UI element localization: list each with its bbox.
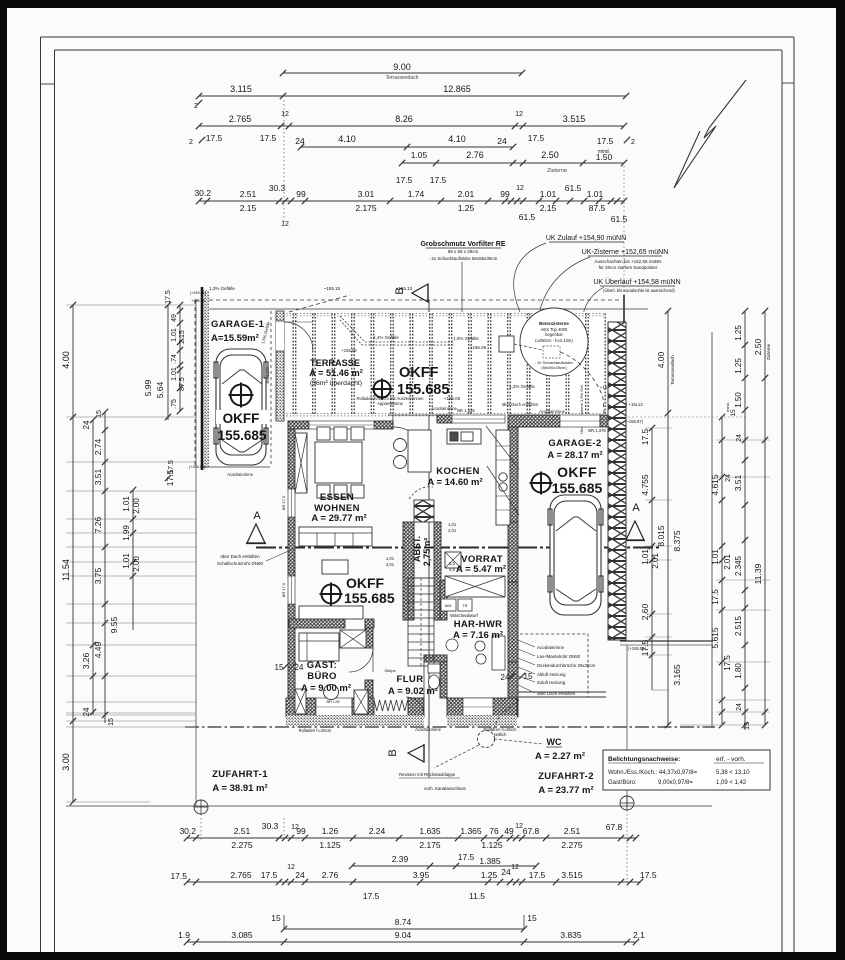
svg-text:1.01: 1.01 <box>587 189 604 199</box>
svg-text:Apparelenime: Apparelenime <box>377 401 404 406</box>
svg-text:17.5: 17.5 <box>260 133 277 143</box>
svg-text:begehbar: begehbar <box>545 332 563 337</box>
svg-text:1.74: 1.74 <box>408 189 425 199</box>
svg-text:1.125: 1.125 <box>481 840 503 850</box>
svg-text:A = 51.46 m²: A = 51.46 m² <box>309 368 363 378</box>
svg-text:2.51: 2.51 <box>240 189 257 199</box>
svg-text:15: 15 <box>730 409 737 417</box>
svg-text:A: A <box>253 510 261 522</box>
svg-text:BR.l.25: BR.l.25 <box>326 699 340 704</box>
svg-text:24: 24 <box>497 136 507 146</box>
svg-text:1.635: 1.635 <box>419 826 441 836</box>
svg-text:2.74: 2.74 <box>93 438 103 455</box>
svg-text:8.015: 8.015 <box>656 525 666 547</box>
svg-text:Deckendurchbrüche 25x25cm: Deckendurchbrüche 25x25cm <box>537 663 596 668</box>
svg-text:155.685: 155.685 <box>552 480 603 496</box>
svg-text:+155.09: +155.09 <box>341 348 357 353</box>
svg-text:24: 24 <box>295 663 304 672</box>
svg-text:12: 12 <box>287 864 295 871</box>
svg-text:Abluft Heizung: Abluft Heizung <box>537 672 566 677</box>
svg-text:B: B <box>387 749 399 756</box>
svg-text:Terrassendach: Terrassendach <box>386 75 419 81</box>
svg-text:seitlich: seitlich <box>494 732 507 737</box>
svg-text:99: 99 <box>296 189 306 199</box>
svg-text:1.01: 1.01 <box>122 496 131 512</box>
svg-text:2.24: 2.24 <box>369 826 386 836</box>
svg-text:1.80: 1.80 <box>734 663 743 679</box>
svg-text:7.26: 7.26 <box>93 516 103 533</box>
svg-text:17.5: 17.5 <box>165 290 172 304</box>
svg-text:3.51: 3.51 <box>93 468 103 485</box>
svg-text:12.865: 12.865 <box>443 84 471 94</box>
svg-text:17.5: 17.5 <box>430 175 447 185</box>
svg-text:1.25: 1.25 <box>458 203 475 213</box>
svg-text:24: 24 <box>501 867 511 877</box>
svg-text:5.99: 5.99 <box>143 379 153 396</box>
svg-text:11.54: 11.54 <box>61 559 71 581</box>
svg-text:2.50: 2.50 <box>541 150 559 160</box>
svg-text:B: B <box>394 287 406 294</box>
svg-text:76: 76 <box>489 826 499 836</box>
svg-text:8.74: 8.74 <box>395 917 412 927</box>
svg-text:1.01: 1.01 <box>171 367 178 381</box>
svg-text:87.5: 87.5 <box>589 203 606 213</box>
svg-text:1.05: 1.05 <box>411 150 428 160</box>
svg-text:TR: TR <box>462 604 467 608</box>
svg-text:+155.05: +155.05 <box>444 396 461 401</box>
svg-text:2.275: 2.275 <box>231 840 253 850</box>
svg-text:30.2: 30.2 <box>179 826 196 836</box>
svg-text:2.765: 2.765 <box>230 870 252 880</box>
svg-text:15: 15 <box>96 410 103 418</box>
svg-text:2.01: 2.01 <box>651 553 660 569</box>
svg-text:2.50: 2.50 <box>753 338 763 355</box>
svg-text:A = 7.16 m²: A = 7.16 m² <box>453 630 503 641</box>
svg-text:OKFF: OKFF <box>223 411 260 426</box>
svg-text:3.085: 3.085 <box>231 930 253 940</box>
svg-text:(Überl. bis Kanalsohle ist aus: (Überl. bis Kanalsohle ist ausreichend) <box>603 288 675 293</box>
svg-text:30.3: 30.3 <box>262 821 279 831</box>
svg-text:24: 24 <box>725 474 732 482</box>
svg-text:UK-Zisterne +152,65 müNN: UK-Zisterne +152,65 müNN <box>582 249 669 256</box>
svg-text:67.8: 67.8 <box>523 826 540 836</box>
svg-text:15: 15 <box>275 663 284 672</box>
svg-text:Stülpe: Stülpe <box>384 668 396 673</box>
svg-text:Gast/Büro:: Gast/Büro: <box>608 780 637 786</box>
svg-text:17.5: 17.5 <box>640 428 650 445</box>
svg-text:Wohn./Ess./Koch.: 44,37x0,97/8: Wohn./Ess./Koch.: 44,37x0,97/8= <box>608 770 698 776</box>
svg-text:2,01: 2,01 <box>448 528 457 533</box>
svg-text:15: 15 <box>744 722 751 730</box>
svg-text:1.365: 1.365 <box>460 826 482 836</box>
svg-text:1,09 < 1,42: 1,09 < 1,42 <box>716 780 747 786</box>
svg-text:über Dach entlüften: über Dach entlüften <box>537 691 576 696</box>
svg-text:GARAGE-1: GARAGE-1 <box>211 319 265 330</box>
svg-text:.74: .74 <box>171 354 178 364</box>
svg-text:für 20cm starken Sandpolster: für 20cm starken Sandpolster <box>599 265 658 270</box>
svg-text:Zuluft Heizung: Zuluft Heizung <box>537 680 566 685</box>
svg-text:2,01: 2,01 <box>386 562 395 567</box>
svg-text:OKFF: OKFF <box>399 365 439 381</box>
svg-text:Ausschachten bis +152,65 müNN: Ausschachten bis +152,65 müNN <box>595 259 662 264</box>
svg-text:4.10: 4.10 <box>338 134 356 144</box>
svg-text:8.375: 8.375 <box>672 530 682 552</box>
svg-text:ESSEN: ESSEN <box>320 492 354 503</box>
svg-text:HAR-HWR: HAR-HWR <box>454 619 503 630</box>
svg-text:1,01: 1,01 <box>448 522 457 527</box>
svg-text:49: 49 <box>504 826 514 836</box>
svg-text:155.685: 155.685 <box>344 590 395 606</box>
svg-text:Grobschmutz Vorfilter RE: Grobschmutz Vorfilter RE <box>420 241 505 248</box>
svg-text:A = 29.77 m²: A = 29.77 m² <box>311 513 366 524</box>
svg-text:A = 23.77 m²: A = 23.77 m² <box>538 785 593 796</box>
svg-text:3.51: 3.51 <box>733 474 743 491</box>
svg-text:BR 17,5: BR 17,5 <box>281 582 286 597</box>
svg-text:Rolladen h=25cm: Rolladen h=25cm <box>299 728 332 733</box>
svg-text:2.60: 2.60 <box>640 603 650 620</box>
svg-text:1,0% Gefälle: 1,0% Gefälle <box>453 336 479 341</box>
svg-text:2.51: 2.51 <box>564 826 581 836</box>
svg-text:2.765: 2.765 <box>229 114 252 124</box>
svg-text:OKFF: OKFF <box>346 575 385 591</box>
svg-text:12: 12 <box>281 221 289 228</box>
svg-text:ZUFAHRT-2: ZUFAHRT-2 <box>538 771 594 782</box>
svg-text:(+155.31): (+155.31) <box>190 291 207 295</box>
svg-text:15: 15 <box>271 913 281 923</box>
svg-text:WC: WC <box>547 737 562 747</box>
svg-text:A = 2.27 m²: A = 2.27 m² <box>535 751 585 762</box>
svg-text:1.25: 1.25 <box>734 358 743 374</box>
svg-text:~155.15: ~155.15 <box>324 286 341 291</box>
svg-text:1.01: 1.01 <box>540 189 557 199</box>
svg-text:OKFF: OKFF <box>557 464 597 480</box>
svg-text:A=15.59m²: A=15.59m² <box>211 333 259 344</box>
svg-text:8.26: 8.26 <box>395 114 413 124</box>
svg-text:erf. - vorh.: erf. - vorh. <box>716 756 746 763</box>
svg-text:24: 24 <box>82 707 91 716</box>
svg-text:Lav-/Mantelrohr DN50: Lav-/Mantelrohr DN50 <box>537 654 581 659</box>
svg-text:A = 5.47 m²: A = 5.47 m² <box>456 564 506 575</box>
svg-text:15: 15 <box>108 718 115 726</box>
svg-text:Acodrainrinne: Acodrainrinne <box>537 645 565 650</box>
svg-text:BR 1,125: BR 1,125 <box>457 408 475 413</box>
svg-text:3.75: 3.75 <box>93 567 103 584</box>
svg-text:1,4% Gefälle: 1,4% Gefälle <box>373 335 399 340</box>
svg-text:12: 12 <box>511 864 519 871</box>
svg-text:2.15: 2.15 <box>240 203 257 213</box>
svg-text:11.39: 11.39 <box>753 563 763 584</box>
svg-text:17.5: 17.5 <box>396 175 413 185</box>
svg-text:61.5: 61.5 <box>611 214 628 224</box>
svg-text:2.1: 2.1 <box>633 930 645 940</box>
svg-text:24: 24 <box>501 673 510 682</box>
svg-text:4.49: 4.49 <box>93 641 103 658</box>
svg-text:1.01: 1.01 <box>641 549 650 565</box>
svg-text:24: 24 <box>736 434 743 442</box>
svg-text:24: 24 <box>736 703 743 711</box>
svg-text:2.515: 2.515 <box>734 615 743 636</box>
svg-text:17.5: 17.5 <box>528 133 545 143</box>
svg-text:mind.: mind. <box>725 402 730 412</box>
svg-text:4.00: 4.00 <box>656 351 666 368</box>
svg-text:2.175: 2.175 <box>355 203 377 213</box>
svg-text:17.5: 17.5 <box>261 870 278 880</box>
svg-text:(+155.53): (+155.53) <box>189 465 206 469</box>
svg-text:2.00: 2.00 <box>132 556 141 572</box>
svg-text:4.615: 4.615 <box>710 474 720 496</box>
svg-text:30.3: 30.3 <box>269 183 286 193</box>
svg-text:17.5: 17.5 <box>640 870 657 880</box>
svg-text:2.01: 2.01 <box>723 554 732 570</box>
svg-text:1.01: 1.01 <box>711 549 720 565</box>
svg-text:ZUFAHRT-1: ZUFAHRT-1 <box>212 769 268 780</box>
svg-text:24: 24 <box>82 420 91 429</box>
svg-text:BR.1,375: BR.1,375 <box>588 428 606 433</box>
svg-text:A = 28.17 m²: A = 28.17 m² <box>547 450 602 461</box>
svg-text:1.125: 1.125 <box>319 840 341 850</box>
svg-text:3.00: 3.00 <box>61 753 71 771</box>
svg-text:+155.09: +155.09 <box>470 345 487 350</box>
svg-text:17.5: 17.5 <box>170 871 187 881</box>
svg-text:3.95: 3.95 <box>413 870 430 880</box>
svg-text:Acodrainrinne: Acodrainrinne <box>539 409 566 414</box>
svg-text:Belichtungsnachweise:: Belichtungsnachweise: <box>608 756 680 763</box>
svg-text:9.00: 9.00 <box>393 62 411 72</box>
svg-text:99: 99 <box>500 189 510 199</box>
svg-text:(~155.87): (~155.87) <box>625 419 644 424</box>
svg-text:2.00: 2.00 <box>132 498 141 514</box>
svg-text:9.04: 9.04 <box>395 930 412 940</box>
svg-text:17.5: 17.5 <box>597 136 614 146</box>
svg-text:99: 99 <box>296 826 306 836</box>
svg-text:67.8: 67.8 <box>606 822 623 832</box>
svg-text:FLUR: FLUR <box>397 674 424 685</box>
svg-text:3.26: 3.26 <box>81 652 91 669</box>
svg-text:9,00x0,97/8=: 9,00x0,97/8= <box>658 780 693 786</box>
svg-text:1.385: 1.385 <box>479 856 501 866</box>
svg-text:BR 17,5: BR 17,5 <box>281 495 286 510</box>
svg-text:2.76: 2.76 <box>466 150 484 160</box>
svg-text:17.5: 17.5 <box>640 639 650 656</box>
svg-text:58 x 58 x 39cm: 58 x 58 x 39cm <box>448 249 479 254</box>
svg-text:2.175: 2.175 <box>419 840 441 850</box>
svg-text:15: 15 <box>527 913 537 923</box>
svg-text:BÜRO: BÜRO <box>307 671 337 682</box>
svg-text:2: 2 <box>189 139 193 146</box>
svg-text:61.5: 61.5 <box>565 183 582 193</box>
svg-text:2.01: 2.01 <box>458 189 475 199</box>
svg-text:4.00: 4.00 <box>61 351 71 369</box>
svg-text:9.55: 9.55 <box>109 616 119 633</box>
svg-text:5.615: 5.615 <box>710 627 720 649</box>
svg-text:4.10: 4.10 <box>448 134 466 144</box>
svg-text:(56x56x39cm): (56x56x39cm) <box>541 365 567 370</box>
svg-text:3.01: 3.01 <box>358 189 375 199</box>
svg-text:5,5: 5,5 <box>449 567 455 572</box>
svg-text:3.835: 3.835 <box>560 930 582 940</box>
svg-text:3.515: 3.515 <box>563 114 586 124</box>
svg-text:über Dach entlüften: über Dach entlüften <box>502 402 539 407</box>
svg-text:vorh. Kanalanschluss: vorh. Kanalanschluss <box>424 786 467 791</box>
svg-text:17.5: 17.5 <box>458 852 475 862</box>
svg-text:Acodrainrinne: Acodrainrinne <box>415 727 442 732</box>
svg-text:1.99: 1.99 <box>122 525 131 541</box>
svg-text:2.275: 2.275 <box>561 840 583 850</box>
svg-text:KOCHEN: KOCHEN <box>436 466 480 477</box>
svg-text:Betonzisterne: Betonzisterne <box>539 321 569 326</box>
svg-text:87.5: 87.5 <box>179 377 186 391</box>
svg-text:Acodrainrinne: Acodrainrinne <box>431 406 458 411</box>
svg-text:2,75m²: 2,75m² <box>422 538 432 567</box>
svg-text:UK Überlauf +154,58 müNN: UK Überlauf +154,58 müNN <box>593 278 680 286</box>
svg-text:17.5: 17.5 <box>363 891 380 901</box>
svg-text:GAST:: GAST: <box>307 660 338 671</box>
svg-text:61.5: 61.5 <box>519 212 536 222</box>
svg-text:17.5: 17.5 <box>723 655 732 671</box>
svg-text:155.685: 155.685 <box>218 428 267 443</box>
svg-text:2: 2 <box>631 139 635 146</box>
svg-text:1.26: 1.26 <box>322 826 339 836</box>
svg-text:1.25: 1.25 <box>481 870 498 880</box>
svg-text:.75: .75 <box>171 399 178 409</box>
svg-text:3.165: 3.165 <box>672 664 682 686</box>
svg-text:1.50: 1.50 <box>734 392 743 408</box>
svg-text:Zisterne: Zisterne <box>547 168 567 174</box>
svg-text:2.51: 2.51 <box>234 826 251 836</box>
svg-text:(≥250cm - h≥2.42m): (≥250cm - h≥2.42m) <box>535 338 573 343</box>
svg-text:1,3% Gefälle: 1,3% Gefälle <box>209 286 235 291</box>
svg-text:1.25: 1.25 <box>734 325 743 341</box>
svg-text:2.345: 2.345 <box>734 555 743 576</box>
svg-text:ABST.: ABST. <box>412 536 422 562</box>
svg-text:Wäscheabwurf: Wäscheabwurf <box>450 613 479 618</box>
svg-text:1.01: 1.01 <box>171 328 178 342</box>
svg-text:2.15: 2.15 <box>540 203 557 213</box>
svg-text:12: 12 <box>281 111 289 118</box>
svg-text:49: 49 <box>171 314 178 322</box>
svg-text:4.755: 4.755 <box>640 474 650 496</box>
svg-text:3.115: 3.115 <box>230 84 252 94</box>
svg-text:TERRASSE: TERRASSE <box>310 358 360 368</box>
svg-text:24: 24 <box>295 870 305 880</box>
svg-text:30.2: 30.2 <box>194 188 211 198</box>
svg-text:1.01: 1.01 <box>122 553 131 569</box>
svg-text:12: 12 <box>516 185 524 192</box>
svg-text:1,3% Gefälle: 1,3% Gefälle <box>509 384 535 389</box>
svg-text:3.515: 3.515 <box>561 870 583 880</box>
svg-text:1.50: 1.50 <box>596 152 613 162</box>
svg-text:UK Zulauf +154,90 müNN: UK Zulauf +154,90 müNN <box>546 235 626 242</box>
svg-text:17.5: 17.5 <box>711 589 720 605</box>
svg-text:A: A <box>632 502 640 514</box>
svg-text:5.64: 5.64 <box>155 381 165 398</box>
svg-text:Acodrainrinne: Acodrainrinne <box>227 472 254 477</box>
svg-text:17.5: 17.5 <box>168 460 175 474</box>
svg-text:- 2x Schachtaufsätze 56x56x39c: - 2x Schachtaufsätze 56x56x39cm <box>429 256 498 261</box>
svg-text:5,5: 5,5 <box>449 561 455 566</box>
svg-text:5,38 < 13,10: 5,38 < 13,10 <box>716 770 750 776</box>
svg-text:2.76: 2.76 <box>322 870 339 880</box>
svg-text:12: 12 <box>515 111 523 118</box>
svg-text:17.5: 17.5 <box>529 870 546 880</box>
svg-text:2.39: 2.39 <box>392 854 409 864</box>
svg-text:(36m² überdacht): (36m² überdacht) <box>310 380 362 387</box>
svg-text:11.5: 11.5 <box>469 891 485 901</box>
svg-text:Zisterne: Zisterne <box>766 343 771 360</box>
svg-text:Terrassendach: Terrassendach <box>670 355 675 385</box>
svg-text:1.9: 1.9 <box>178 930 190 940</box>
svg-text:Schallschutzrohr DN90: Schallschutzrohr DN90 <box>217 561 264 566</box>
svg-text:17.5: 17.5 <box>206 133 223 143</box>
svg-text:Revision mit Rückstauklappe: Revision mit Rückstauklappe <box>399 772 456 777</box>
svg-text:WM: WM <box>445 604 452 608</box>
svg-text:1,01: 1,01 <box>386 556 395 561</box>
svg-text:A = 9.00 m²: A = 9.00 m² <box>301 683 351 694</box>
svg-text:GARAGE-2: GARAGE-2 <box>548 438 601 449</box>
svg-text:A = 14.60 m²: A = 14.60 m² <box>427 477 482 488</box>
svg-text:über Dach entlüften: über Dach entlüften <box>220 554 260 559</box>
svg-text:2.15: 2.15 <box>179 330 186 344</box>
svg-text:+155.29: +155.29 <box>191 299 205 303</box>
svg-text:A = 38.91 m²: A = 38.91 m² <box>212 783 267 794</box>
